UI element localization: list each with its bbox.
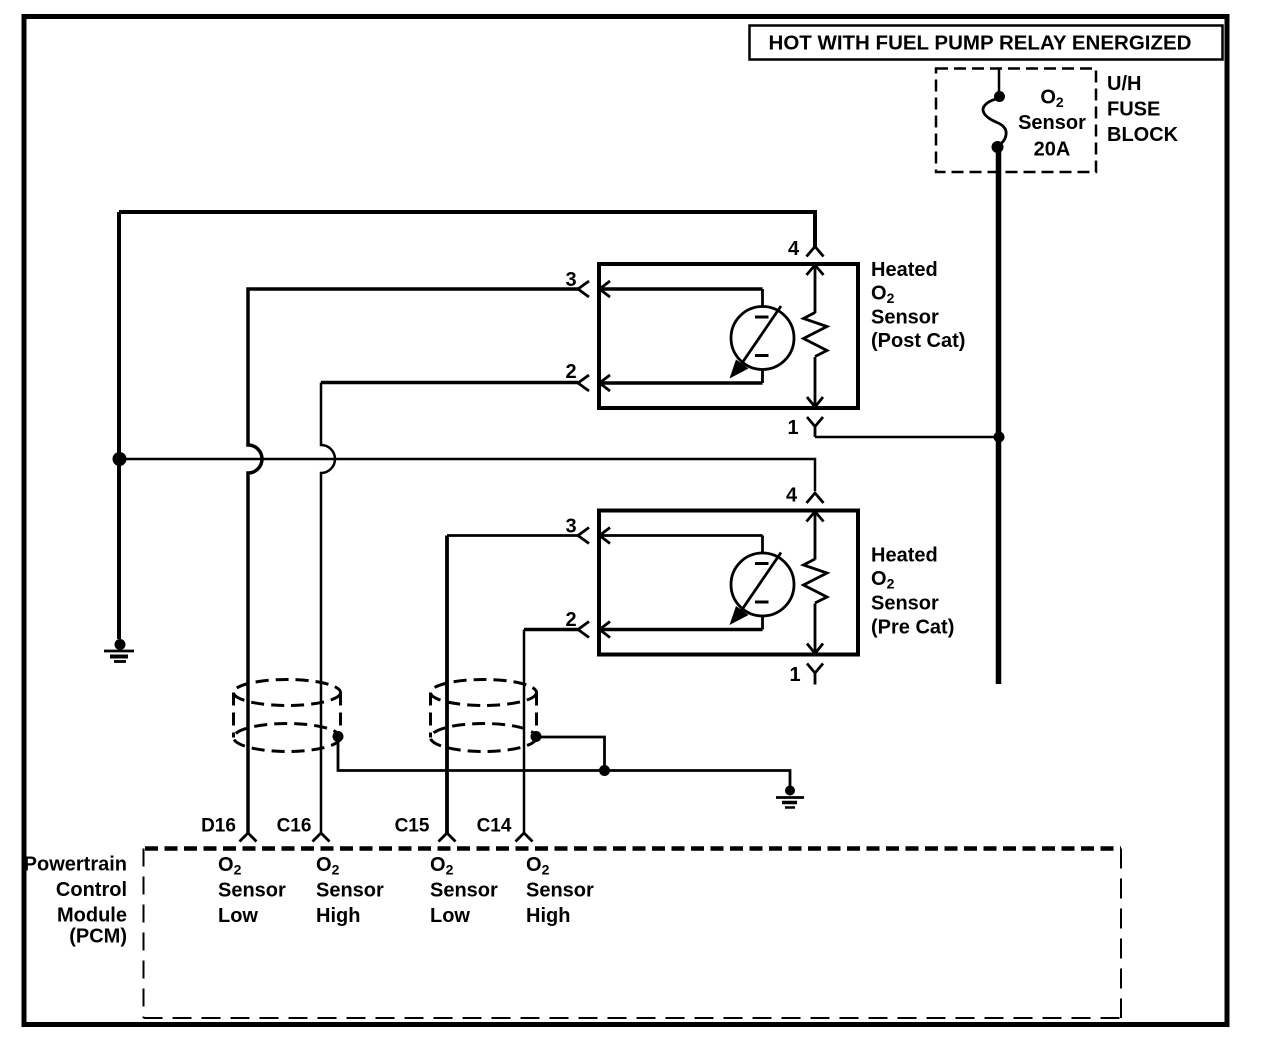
PCM module box (dashed) (144, 849, 1122, 1019)
svg-text:Sensor: Sensor (526, 880, 594, 902)
svg-text:HOT WITH FUEL PUMP RELAY ENERG: HOT WITH FUEL PUMP RELAY ENERGIZED (769, 32, 1192, 55)
wire: left ground run (117, 212, 121, 639)
svg-text:Low: Low (430, 905, 470, 927)
svg-text:1: 1 (789, 664, 800, 686)
PCM pin C16 connector (277, 816, 330, 842)
O2 sensing element (variable source) (730, 536, 795, 630)
svg-text:Low: Low (218, 905, 258, 927)
svg-text:(Post Cat): (Post Cat) (871, 330, 965, 352)
svg-text:4: 4 (788, 238, 800, 260)
heated O2 sensor (post cat) (565, 238, 858, 439)
svg-text:C15: C15 (395, 816, 430, 837)
label: Powertrain Control Module (PCM) (24, 854, 127, 948)
heater resistor (804, 512, 828, 653)
svg-text:C14: C14 (477, 816, 512, 837)
svg-text:Heated: Heated (871, 259, 938, 281)
pin 2 connector (565, 609, 762, 638)
wire: post-cat pin 2 to PCM C16 (with hop) (321, 381, 578, 385)
pin 1 connector (789, 644, 823, 687)
PCM pin C16 function: O2 Sensor High (316, 854, 384, 927)
svg-text:4: 4 (786, 485, 798, 507)
pin 3 connector (565, 516, 762, 544)
svg-text:1: 1 (787, 417, 798, 439)
header box: HOT WITH FUEL PUMP RELAY ENERGIZED (750, 26, 1223, 60)
node: shield 1 drain (333, 731, 344, 742)
pin 2 connector (565, 361, 762, 391)
wire: shield 1 drain down and right (338, 737, 605, 771)
label: O2 Sensor 20A (1018, 87, 1086, 161)
node: drain junction (599, 765, 610, 776)
svg-text:BLOCK: BLOCK (1107, 124, 1179, 146)
PCM pin D16 connector (201, 816, 256, 842)
wire: shield 2 drain right and down (536, 737, 605, 771)
PCM pin C15 connector (395, 816, 456, 842)
svg-text:Sensor: Sensor (316, 880, 384, 902)
svg-text:C16: C16 (277, 816, 312, 837)
svg-text:(Pre Cat): (Pre Cat) (871, 617, 954, 639)
svg-text:Sensor: Sensor (871, 593, 939, 615)
node: junction on hot feed (994, 432, 1005, 443)
ground G102 (776, 786, 804, 808)
svg-text:Sensor: Sensor (871, 307, 939, 329)
PCM pin D16 function: O2 Sensor Low (218, 854, 286, 927)
svg-text:2: 2 (565, 609, 576, 631)
wire: hot feed from fuse (thick vertical) (996, 147, 1002, 684)
svg-text:Sensor: Sensor (430, 880, 498, 902)
svg-text:U/H: U/H (1107, 73, 1141, 95)
svg-text:(PCM): (PCM) (69, 926, 127, 948)
PCM pin C15 function: O2 Sensor Low (430, 854, 498, 927)
U/H fuse block box (dashed) (936, 69, 1096, 173)
label: Heated O2 Sensor (Pre Cat) (871, 545, 954, 639)
shield: post-cat signal pair (dashed cylinder) (234, 680, 341, 752)
PCM pin C14 connector (477, 816, 533, 842)
label: U/H FUSE BLOCK (1107, 73, 1179, 146)
heater resistor (804, 265, 828, 406)
svg-text:20A: 20A (1034, 139, 1071, 161)
svg-text:D16: D16 (201, 816, 236, 837)
svg-text:Control: Control (56, 879, 127, 901)
wire: pre-cat pin 2 to PCM C14 (524, 628, 578, 632)
wire: drains to ground G102 (605, 771, 791, 789)
pin 3 connector (565, 269, 762, 297)
label: Heated O2 Sensor (Post Cat) (871, 259, 965, 352)
PCM pin C14 function: O2 Sensor High (526, 854, 594, 927)
wire: post-cat pin 4 to top run (119, 212, 815, 247)
pin 4 connector (786, 485, 824, 522)
shield: pre-cat signal pair (dashed cylinder) (431, 680, 537, 752)
node: shield 2 drain (531, 731, 542, 742)
svg-text:Module: Module (57, 905, 127, 927)
O2 sensing element (variable source) (730, 289, 795, 383)
wire: feed into fuse (998, 69, 1001, 94)
svg-text:Sensor: Sensor (1018, 112, 1086, 134)
svg-text:FUSE: FUSE (1107, 99, 1160, 121)
pin 1 connector (787, 397, 823, 439)
svg-text:2: 2 (565, 361, 576, 383)
ground G101 (104, 639, 134, 662)
wire: pre-cat pin 3 to PCM C15 (447, 534, 578, 537)
wire: splice to pre-cat pin 4 (119, 459, 815, 491)
heated O2 sensor (pre cat) (565, 485, 858, 687)
svg-text:Powertrain: Powertrain (24, 854, 127, 876)
pin 4 connector (788, 238, 824, 275)
svg-text:Sensor: Sensor (218, 880, 286, 902)
svg-text:Heated: Heated (871, 545, 938, 567)
node: splice of ground run and pre-cat heater ground (113, 452, 127, 466)
wire: post-cat pin 3 to PCM D16 (with hop) (248, 289, 578, 833)
svg-text:High: High (526, 905, 570, 927)
wire: post-cat pin 1 to hot feed (815, 436, 999, 439)
fuse: O2 Sensor 20A (983, 91, 1006, 153)
svg-text:High: High (316, 905, 360, 927)
